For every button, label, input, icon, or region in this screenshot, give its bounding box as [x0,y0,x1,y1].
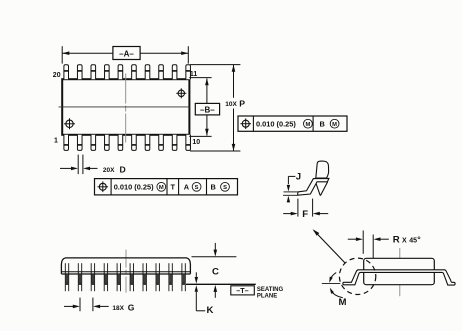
detail leader arrow [314,230,346,263]
svg-text:20X: 20X [103,167,115,174]
lead detail: gull-wing band [298,178,329,195]
svg-text:M: M [332,122,337,128]
svg-text:M: M [159,185,164,191]
svg-text:20: 20 [53,72,61,79]
dimension K [195,272,197,277]
lead detail: lower wedge [316,182,328,195]
svg-text:T: T [171,183,176,192]
svg-text:10: 10 [192,139,200,146]
side view centerline [125,250,127,293]
datum target symbol upper right [178,90,184,96]
feature control frame: position 0.010 (0.25) M | T | A S | B S [95,179,238,195]
svg-text:D: D [120,165,126,175]
side view body [61,258,190,274]
feature control frame: position 0.010 (0.25) M | B M [238,116,347,131]
svg-text:S: S [223,185,227,191]
svg-text:0.010 (0.25): 0.010 (0.25) [256,120,296,129]
dimension C [192,256,237,258]
seating plane datum -T- [231,286,255,295]
detail reference dashed circle [339,258,375,294]
side view leads [64,263,66,291]
svg-text:R: R [393,235,400,246]
svg-text:10X: 10X [225,101,237,108]
top view package body [62,79,189,135]
svg-text:–T–: –T– [236,286,248,295]
dimension 20X D [77,155,79,175]
dimension J [284,191,299,193]
end view centerline [399,248,401,296]
svg-text:C: C [212,267,219,278]
horizontal centerline top view [59,106,190,108]
svg-text:B: B [211,183,216,192]
svg-text:M: M [305,122,310,128]
svg-text:°: ° [417,234,421,244]
end view body [364,258,435,284]
svg-text:X: X [402,237,407,244]
seating plane line [186,283,256,285]
svg-text:0.010 (0.25): 0.010 (0.25) [114,183,154,192]
svg-text:S: S [195,185,199,191]
dimension F [297,199,299,217]
svg-text:M: M [339,297,347,308]
svg-text:SEATING: SEATING [257,287,284,293]
svg-text:45: 45 [409,237,417,244]
lead detail: upper lead blob [316,161,329,178]
dimension 18X G [79,298,81,312]
svg-text:P: P [239,98,245,108]
svg-text:PLANE: PLANE [257,294,277,300]
svg-text:F: F [302,209,308,220]
vertical centerline top view [125,74,127,143]
top row pins 20..11 [64,65,69,80]
svg-text:J: J [296,171,301,182]
svg-text:–B–: –B– [200,105,215,114]
svg-text:18X: 18X [112,305,124,312]
dimension R X 45 [362,231,364,254]
bottom row pins 1..10 [64,135,69,151]
svg-text:G: G [128,302,135,312]
svg-text:B: B [320,120,325,129]
svg-text:A: A [184,183,190,192]
datum target symbol lower left [66,120,73,127]
dimension B [189,77,211,79]
dimension 10X P [190,64,240,66]
svg-text:–A–: –A– [119,50,134,59]
dimension M (lead angle) [322,282,341,284]
svg-text:K: K [207,305,214,316]
svg-text:1: 1 [54,137,58,144]
dimension A [61,46,63,63]
end view lead frame gull-wing [343,270,455,285]
